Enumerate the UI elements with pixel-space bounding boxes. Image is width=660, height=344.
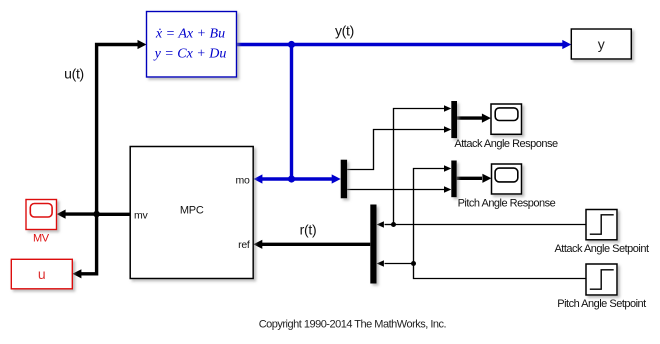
svg-text:ẋ = Ax + Bu: ẋ = Ax + Bu <box>155 26 225 41</box>
svg-text:MPC: MPC <box>180 205 204 217</box>
svg-text:Pitch Angle Setpoint: Pitch Angle Setpoint <box>557 298 646 310</box>
svg-text:mv: mv <box>134 210 148 222</box>
svg-text:Attack Angle Setpoint: Attack Angle Setpoint <box>554 243 649 255</box>
svg-text:y(t): y(t) <box>335 22 354 38</box>
svg-text:Attack Angle Response: Attack Angle Response <box>454 138 558 150</box>
svg-text:r(t): r(t) <box>300 222 317 238</box>
svg-text:MV: MV <box>33 232 50 244</box>
svg-text:y = Cx + Du: y = Cx + Du <box>153 47 227 62</box>
svg-text:u: u <box>38 266 46 282</box>
svg-text:Pitch Angle Response: Pitch Angle Response <box>458 198 556 210</box>
svg-text:y: y <box>598 36 605 52</box>
svg-text:Copyright 1990-2014 The MathWo: Copyright 1990-2014 The MathWorks, Inc. <box>259 319 447 331</box>
svg-text:u(t): u(t) <box>64 66 84 82</box>
svg-text:mo: mo <box>236 175 250 187</box>
svg-text:ref: ref <box>238 239 250 251</box>
